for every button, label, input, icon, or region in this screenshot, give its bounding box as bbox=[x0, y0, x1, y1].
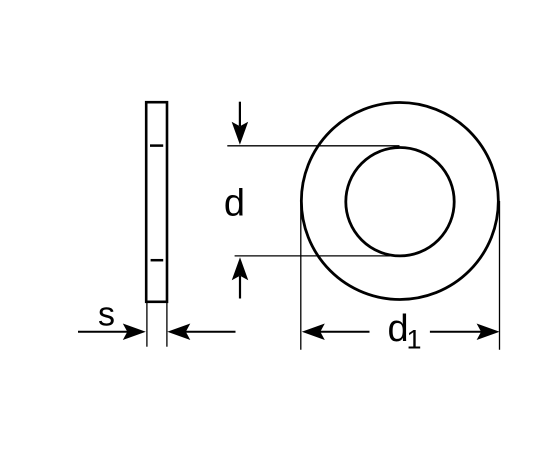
d1 extension line left bbox=[300, 201, 302, 350]
d dim up arrow shaft bbox=[239, 276, 241, 299]
extension line below rect right bbox=[166, 303, 168, 347]
d dim down arrowhead bbox=[232, 122, 249, 145]
d1 right shaft bbox=[430, 331, 483, 333]
extension line below rect left bbox=[146, 303, 148, 347]
svg-text:d: d bbox=[388, 308, 409, 350]
d1 left arrowhead bbox=[302, 323, 325, 340]
d1 extension line right bbox=[499, 201, 501, 350]
hole edge tick bottom (side view) bbox=[151, 259, 164, 262]
washer front view inner circle bbox=[346, 148, 454, 256]
d dim bottom tangent line bbox=[235, 255, 390, 257]
d1 left shaft bbox=[318, 331, 370, 333]
svg-text:d: d bbox=[224, 182, 245, 224]
s dim right arrowhead bbox=[167, 323, 190, 340]
d dim down arrow shaft bbox=[239, 102, 241, 126]
d dim up arrowhead bbox=[232, 257, 249, 280]
hole edge tick top (side view) bbox=[150, 144, 163, 147]
s dim left shaft bbox=[78, 331, 130, 333]
s dim left arrowhead bbox=[123, 323, 146, 340]
svg-text:1: 1 bbox=[407, 324, 422, 354]
washer front view outer circle bbox=[301, 103, 498, 300]
d1 right arrowhead bbox=[477, 323, 500, 340]
svg-text:s: s bbox=[98, 296, 115, 334]
s dim right shaft bbox=[183, 331, 236, 333]
washer side view outline bbox=[146, 102, 167, 302]
d dim top tangent line bbox=[227, 145, 399, 147]
